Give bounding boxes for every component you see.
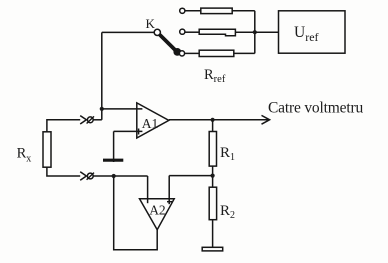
wire wiper bottom to A2 input <box>93 175 148 177</box>
junction dot R1-R2 node <box>211 174 215 178</box>
wire contact1 to Rref top resistor <box>185 10 201 12</box>
svg-text:A2: A2 <box>149 202 166 217</box>
wiper slash bottom <box>87 173 94 180</box>
wire R1-R2 node to A2 plus input <box>169 175 212 177</box>
ground (R2) <box>202 247 223 251</box>
A2 plus tick <box>167 201 172 203</box>
wiper contact circle bottom <box>87 173 93 179</box>
svg-text:Rx: Rx <box>17 146 32 165</box>
wire Rref middle to bus <box>235 31 254 33</box>
switch K pole circle <box>154 29 160 35</box>
svg-text:Uref: Uref <box>294 24 319 44</box>
resistor Rref middle box <box>199 29 235 36</box>
junction dot Rref bus <box>253 30 257 34</box>
wire from node A to switch pole <box>102 31 154 33</box>
svg-text:R2: R2 <box>220 203 235 221</box>
wire Rref bottom to bus <box>234 52 255 54</box>
wire contact2 to Rref middle resistor <box>185 31 200 33</box>
junction dot divider tap <box>211 118 215 122</box>
resistor Rref top box <box>201 8 232 14</box>
wire Rx bottom to wiper symbol <box>47 167 80 176</box>
wire bus to Uref source <box>255 31 279 33</box>
svg-text:K: K <box>146 16 156 31</box>
op-amp A2 triangle <box>140 199 175 230</box>
resistor Rref bottom box <box>199 50 234 56</box>
wire R1 to R2 <box>212 166 214 187</box>
svg-text:Catre voltmetru: Catre voltmetru <box>268 99 363 116</box>
wire Rref right bus vertical <box>254 11 256 54</box>
wire A1 output to voltmeter <box>169 119 268 121</box>
svg-text:A1: A1 <box>142 116 159 131</box>
wire A1 input to ground <box>113 131 115 162</box>
switch contact 1 circle <box>180 8 185 13</box>
wire A1 lower input <box>114 130 143 132</box>
wire R2 to ground <box>212 220 214 248</box>
resistor Rx box <box>43 132 51 167</box>
svg-text:Rref: Rref <box>204 67 226 85</box>
wiper arrowhead bottom <box>80 172 86 180</box>
wire A2 non-inverting input drop <box>168 176 170 205</box>
junction dot feedback node <box>112 174 116 178</box>
resistor R1 box <box>209 132 216 167</box>
switch K arm tip blob <box>173 48 181 56</box>
arrowhead to voltmeter <box>262 115 270 124</box>
wire Rx top to wiper symbol <box>47 120 80 132</box>
resistor R2 box <box>209 187 216 220</box>
wire to A1 non-inverting top input <box>102 108 143 110</box>
switch contact 3 circle <box>179 51 184 56</box>
wire wiper top to vertical <box>93 119 102 121</box>
wiper slash top <box>87 116 94 123</box>
junction dot node A1 input <box>100 107 104 111</box>
op-amp A1 triangle <box>137 103 169 138</box>
switch K arm (thick blade) <box>159 34 176 50</box>
A1 plus tick <box>138 129 140 135</box>
switch contact 2 circle <box>180 29 185 34</box>
wire contact3 to Rref bottom resistor <box>184 52 199 54</box>
wire Rref top to bus <box>232 10 255 12</box>
wiper arrowhead top <box>80 116 86 124</box>
svg-text:R1: R1 <box>220 145 235 163</box>
voltage source Uref box <box>279 11 346 53</box>
wiper contact circle top <box>87 117 93 123</box>
ground (A1 input) <box>103 159 123 162</box>
wire A2 inverting input drop <box>147 176 149 203</box>
wire vertical from switch feed down to wiper line <box>101 32 103 119</box>
wire A2 output feedback loop <box>114 176 158 250</box>
wire output to R1 <box>212 120 214 132</box>
